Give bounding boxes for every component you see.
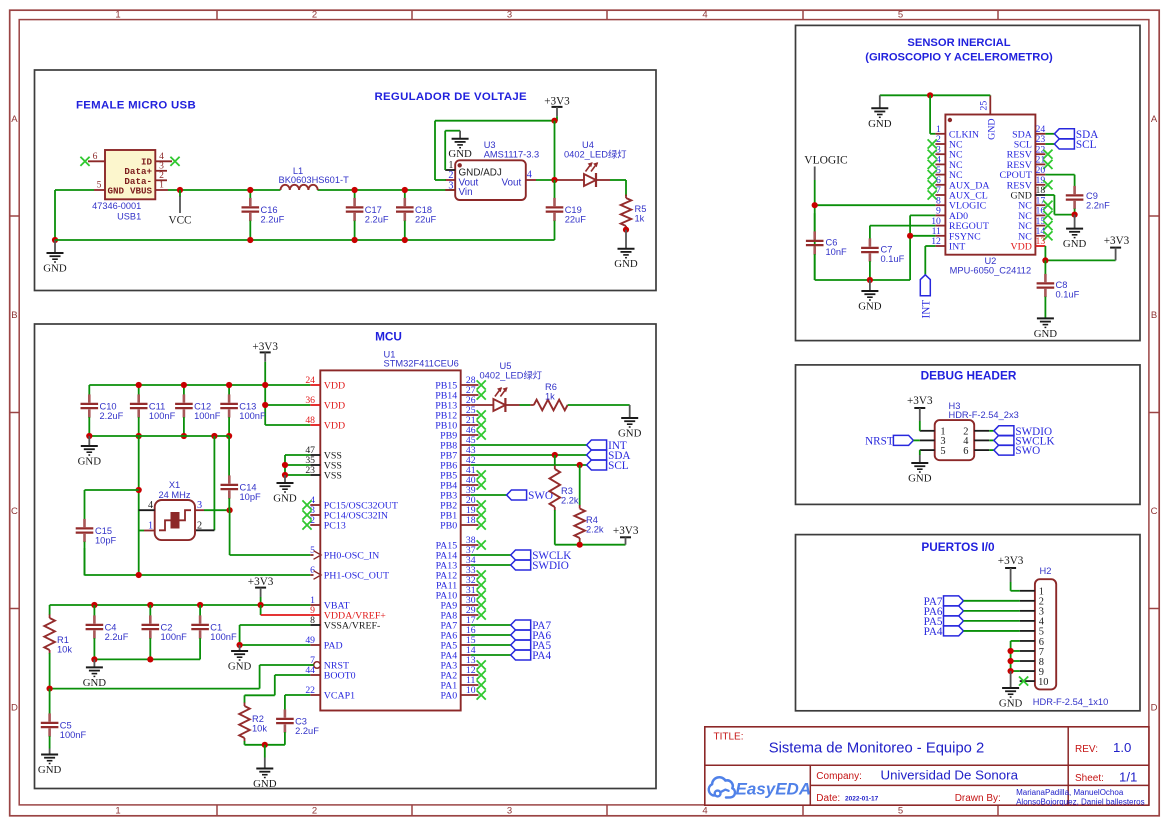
resistor R2 10k bbox=[239, 702, 267, 745]
U1 pin 6 PH1-OSC_OUT clock arrow bbox=[310, 565, 389, 581]
svg-text:VDD: VDD bbox=[1010, 242, 1031, 253]
svg-text:+3V3: +3V3 bbox=[544, 95, 570, 107]
svg-text:1: 1 bbox=[448, 160, 453, 171]
capacitor C7 bbox=[861, 237, 904, 280]
net flag SDA sensor bbox=[1045, 129, 1098, 141]
power flag +3V3 sensor bbox=[1104, 235, 1130, 261]
svg-text:AlonsoBojorquez, Daniel balles: AlonsoBojorquez, Daniel ballesteros bbox=[1016, 797, 1145, 806]
svg-text:GND: GND bbox=[858, 301, 882, 313]
svg-text:SCL: SCL bbox=[1076, 139, 1097, 151]
svg-text:A: A bbox=[1151, 114, 1158, 125]
svg-text:10pF: 10pF bbox=[240, 492, 262, 502]
svg-text:10nF: 10nF bbox=[826, 247, 848, 257]
svg-text:D: D bbox=[1151, 703, 1158, 714]
svg-text:GND: GND bbox=[1034, 328, 1058, 340]
wire VDD pin13 to +3V3 and C8 bbox=[1045, 246, 1115, 260]
connector USB1 47346-0001 body bbox=[105, 150, 155, 199]
U1 pin 7 NRST with bubble bbox=[310, 655, 349, 671]
wire CPOUT to C9 bbox=[1045, 175, 1074, 186]
wire VBUS rail bbox=[168, 189, 456, 191]
U2 pin 18 GND bbox=[1010, 185, 1045, 201]
junction Vout node bbox=[551, 177, 557, 183]
svg-text:C: C bbox=[1151, 506, 1158, 517]
ground symbol right of R6 bbox=[618, 405, 642, 440]
junction VDD C8 tap bbox=[1042, 257, 1048, 263]
section title PUERTOS I/0 bbox=[921, 540, 995, 554]
net flag INT on PB8 bbox=[471, 440, 627, 452]
svg-text:GND: GND bbox=[273, 493, 297, 505]
svg-text:B: B bbox=[1151, 310, 1157, 321]
capacitor C11 bbox=[130, 382, 176, 439]
svg-text:4: 4 bbox=[702, 805, 707, 816]
U1 pin 30 PA9 no-connect bbox=[441, 595, 486, 611]
junction PAD gnd bbox=[237, 642, 243, 648]
svg-text:2: 2 bbox=[197, 520, 202, 531]
U1 pin 34 PA13 bbox=[436, 555, 476, 571]
U1 pin 47 VSS bbox=[305, 445, 342, 461]
net flag SWO on PB3 bbox=[471, 490, 553, 502]
crystal X1 24MHz body bbox=[148, 480, 202, 540]
power flag +3V3 pullups bbox=[613, 525, 639, 545]
svg-text:SWO: SWO bbox=[1015, 445, 1040, 457]
EasyEDA logo bbox=[709, 777, 811, 798]
svg-text:3: 3 bbox=[197, 500, 202, 511]
X1 pin 1 stub bbox=[139, 530, 155, 532]
svg-text:(GIROSCOPIO Y ACELEROMETRO): (GIROSCOPIO Y ACELEROMETRO) bbox=[865, 51, 1053, 63]
svg-text:10: 10 bbox=[1038, 677, 1048, 688]
capacitor C13 bbox=[220, 382, 266, 439]
capacitor C18 bbox=[396, 187, 437, 243]
svg-text:6: 6 bbox=[93, 151, 98, 162]
wire sensor bottom gnd rail bbox=[815, 279, 910, 281]
svg-text:8: 8 bbox=[310, 615, 315, 626]
net flag PA7 puertos bbox=[924, 596, 1020, 608]
power flag +3V3 puertos bbox=[998, 555, 1024, 591]
resistor R1 10k bbox=[44, 605, 72, 689]
title label TITLE: bbox=[714, 731, 744, 742]
svg-text:2: 2 bbox=[312, 805, 317, 816]
svg-text:Vin: Vin bbox=[459, 187, 473, 198]
svg-text:2022-01-17: 2022-01-17 bbox=[845, 795, 879, 802]
svg-text:10k: 10k bbox=[57, 644, 72, 654]
wire AD0 FSYNC tie bbox=[910, 215, 935, 280]
U1 pin 10 PA0 no-connect bbox=[441, 685, 486, 701]
svg-text:AMS1117-3.3: AMS1117-3.3 bbox=[484, 150, 539, 160]
svg-text:PAD: PAD bbox=[324, 641, 343, 652]
svg-text:U2: U2 bbox=[984, 256, 996, 266]
U2 pin 19 RESV no-connect bbox=[1007, 175, 1053, 191]
net flag PA5 puertos bbox=[924, 616, 1020, 628]
svg-text:VCAP1: VCAP1 bbox=[324, 691, 355, 702]
svg-text:+3V3: +3V3 bbox=[907, 395, 933, 407]
wire LED U4 cathode to R5 bbox=[596, 180, 626, 196]
svg-text:EasyEDA: EasyEDA bbox=[736, 780, 812, 799]
ground symbol below C5 bbox=[38, 749, 62, 777]
U1 labels U1 / STM32F411CEU6 bbox=[384, 349, 459, 368]
power flag VCC bbox=[168, 190, 191, 227]
ground symbol lower-left bbox=[43, 240, 67, 275]
svg-text:GND: GND bbox=[987, 119, 998, 140]
U1 pin 20 PB2 no-connect bbox=[440, 495, 486, 511]
U2 pin 21 RESV no-connect bbox=[1007, 155, 1053, 171]
svg-text:X1: X1 bbox=[169, 480, 180, 490]
net flag NRST debug bbox=[865, 435, 920, 447]
svg-text:DEBUG HEADER: DEBUG HEADER bbox=[921, 368, 1017, 382]
wire VSSA/VREF- to PAD gnd bbox=[240, 625, 311, 645]
svg-text:2.2uF: 2.2uF bbox=[100, 411, 124, 421]
junction GND rail at X1 shield column bbox=[211, 433, 217, 439]
wire INT pin to flag bbox=[925, 246, 935, 275]
svg-text:INT: INT bbox=[949, 242, 965, 253]
U2 pin 23 SCL bbox=[1014, 134, 1046, 150]
svg-text:GND: GND bbox=[253, 778, 277, 790]
svg-text:SENSOR INERCIAL: SENSOR INERCIAL bbox=[907, 37, 1010, 49]
svg-text:2.2uF: 2.2uF bbox=[261, 214, 285, 224]
header H2 HDR-F-2.54_1x10 body bbox=[1035, 579, 1056, 689]
svg-text:+3V3: +3V3 bbox=[1104, 235, 1130, 247]
ground symbol below C4 bbox=[83, 659, 107, 689]
svg-text:VBUS: VBUS bbox=[130, 185, 153, 196]
svg-text:1/1: 1/1 bbox=[1119, 770, 1137, 785]
U2 pin 1 CLKIN bbox=[935, 124, 979, 140]
junction VCC tap bbox=[177, 187, 183, 193]
U1 pin 41 PB5 no-connect bbox=[440, 465, 486, 481]
U2 pin 11 FSYNC bbox=[932, 226, 982, 242]
wire C14 down to PH0-OSC_IN bbox=[230, 510, 311, 555]
capacitor C14 bbox=[221, 436, 262, 510]
capacitor C9 bbox=[1066, 186, 1110, 215]
svg-text:USB1: USB1 bbox=[117, 211, 141, 221]
U3 pin 4 stub bbox=[526, 170, 536, 181]
svg-text:PA0: PA0 bbox=[441, 691, 458, 702]
U1 pin 5 PH0-OSC_IN clock arrow bbox=[310, 545, 379, 561]
U2 pin 22 RESV no-connect bbox=[1007, 144, 1053, 160]
svg-text:GND: GND bbox=[614, 258, 638, 270]
junction R1 bottom bbox=[47, 686, 53, 692]
U1 pin 32 PA11 no-connect bbox=[436, 575, 486, 591]
net flag PA5 on pin 15 bbox=[471, 640, 552, 652]
net flag PA7 on pin 17 bbox=[471, 620, 552, 632]
U1 pin 39 PB3 bbox=[440, 485, 476, 501]
svg-text:100nF: 100nF bbox=[210, 632, 237, 642]
USB1 pin 1 stub VBUS bbox=[155, 179, 168, 190]
svg-text:4: 4 bbox=[148, 500, 153, 511]
U1 pin 43 PB7 bbox=[440, 445, 476, 461]
U2 pin 3 NC no-connect bbox=[928, 144, 963, 160]
U1 pin 22 VCAP1 bbox=[305, 685, 355, 701]
svg-text:5: 5 bbox=[97, 179, 102, 190]
svg-text:100nF: 100nF bbox=[239, 411, 266, 421]
wire VCAP1 to C3 bbox=[285, 695, 310, 703]
U1 pin 29 PA8 no-connect bbox=[441, 605, 486, 621]
svg-text:SWDIO: SWDIO bbox=[532, 560, 569, 572]
junction X1 pin3 C14 bbox=[227, 507, 233, 513]
svg-text:10pF: 10pF bbox=[95, 535, 117, 545]
svg-text:C: C bbox=[11, 506, 18, 517]
svg-text:0402_LED绿灯: 0402_LED绿灯 bbox=[480, 369, 543, 380]
U1 pin 3 PC14 with no-connect X bbox=[302, 505, 388, 521]
svg-text:PA4: PA4 bbox=[532, 650, 551, 662]
junction R2/C3 gnd bbox=[262, 742, 268, 748]
U1 pin 24 VDD bbox=[305, 375, 345, 391]
svg-text:BK0603HS601-T: BK0603HS601-T bbox=[279, 175, 350, 185]
net flag SWCLK on PA14 bbox=[471, 550, 572, 562]
USB1 pin 5 stub bbox=[94, 179, 105, 190]
title block outline bbox=[705, 727, 1149, 805]
wire R6 to GND bbox=[568, 404, 630, 406]
wire GND pin18 to C9 bottom bbox=[1045, 195, 1074, 215]
ground symbol puertos bbox=[999, 671, 1023, 710]
junction R5 bottom bbox=[623, 227, 629, 233]
capacitor C17 bbox=[346, 187, 389, 243]
junction SCL R4 tap bbox=[577, 462, 583, 468]
U1 pin 37 PA14 bbox=[436, 545, 476, 561]
net flag PA6 on pin 16 bbox=[471, 630, 552, 642]
U2 pin 5 NC no-connect bbox=[928, 165, 963, 181]
U1 pin 48 VDD bbox=[305, 415, 345, 431]
wire U5 cathode to R6 bbox=[505, 404, 530, 406]
wire BOOT0 to R2 bbox=[245, 675, 311, 702]
net flag SCL on PB6 bbox=[471, 460, 629, 472]
U1 pin 18 PB0 no-connect bbox=[440, 515, 486, 531]
junction R4 bottom bbox=[577, 542, 583, 548]
wire VLOGIC to pin 8 bbox=[815, 204, 936, 206]
svg-text:Universidad De Sonora: Universidad De Sonora bbox=[881, 768, 1019, 783]
junction SDA R3 tap bbox=[552, 452, 558, 458]
junction VDD rail at +3V3 bbox=[262, 382, 268, 408]
U2 pin 12 INT bbox=[931, 236, 965, 252]
ground symbol below C8 bbox=[1034, 318, 1058, 340]
junction GND rail left bbox=[86, 433, 92, 439]
U3 labels U3 / AMS1117-3.3 bbox=[484, 140, 539, 159]
section box MCU bbox=[35, 324, 657, 789]
svg-text:PH1-OSC_OUT: PH1-OSC_OUT bbox=[324, 571, 389, 582]
svg-text:GND: GND bbox=[43, 263, 67, 275]
U2 pin 2 NC no-connect bbox=[928, 134, 963, 150]
H2 pin 10 no-connect X bbox=[1019, 676, 1028, 685]
capacitor C4 bbox=[86, 605, 129, 659]
junction VBAT taps bbox=[91, 602, 263, 608]
section box DEBUG HEADER bbox=[796, 365, 1141, 505]
section box PUERTOS I/0 bbox=[796, 535, 1141, 711]
junction GND rail left bbox=[52, 237, 58, 243]
svg-text:B: B bbox=[11, 310, 17, 321]
svg-text:3: 3 bbox=[448, 180, 453, 191]
svg-text:GND: GND bbox=[83, 677, 107, 689]
ground symbol below C9 bbox=[1063, 215, 1087, 251]
USB1 pin 3 stub bbox=[155, 160, 167, 171]
net flag SWO debug bbox=[989, 445, 1040, 457]
U1 pin 23 VSS bbox=[305, 465, 342, 481]
H2 pin stubs bbox=[1020, 591, 1035, 681]
net flag SWCLK debug bbox=[989, 435, 1054, 447]
svg-text:VSS: VSS bbox=[324, 471, 342, 482]
svg-text:2.2uF: 2.2uF bbox=[365, 214, 389, 224]
U2 pin 14 NC no-connect bbox=[1018, 226, 1052, 242]
svg-text:Drawn By:: Drawn By: bbox=[955, 793, 1001, 804]
wire C15 top link bbox=[85, 489, 139, 491]
frame row letters bbox=[11, 114, 1158, 714]
ground symbol debug pin5 bbox=[908, 450, 932, 484]
svg-text:2.2uF: 2.2uF bbox=[295, 726, 319, 736]
net flag SCL sensor bbox=[1045, 139, 1096, 151]
U1 pin 25 PB12 no-connect bbox=[435, 405, 486, 421]
svg-text:1: 1 bbox=[159, 179, 164, 190]
svg-text:Sheet:: Sheet: bbox=[1075, 773, 1104, 784]
wire U2 gnd top to ground bbox=[880, 94, 991, 96]
H2 label H2 bbox=[1040, 566, 1052, 576]
title label REV: 1.0 bbox=[1075, 740, 1131, 755]
svg-text:TITLE:: TITLE: bbox=[714, 731, 744, 742]
svg-text:1.0: 1.0 bbox=[1113, 740, 1131, 755]
U2 pin 9 AD0 bbox=[935, 206, 968, 222]
wire VDDA red branch bbox=[261, 605, 311, 615]
wire R2 C3 bottoms join bbox=[245, 744, 285, 746]
wire U3 Vout to LED U4 bbox=[536, 179, 584, 181]
svg-text:GND: GND bbox=[1063, 238, 1087, 250]
svg-text:VDD: VDD bbox=[324, 421, 345, 432]
capacitor C19 bbox=[546, 180, 587, 240]
svg-text:2.2k: 2.2k bbox=[561, 495, 579, 505]
power flag VLOGIC bbox=[804, 154, 848, 180]
capacitor C2 bbox=[142, 605, 188, 659]
U2 pin 4 NC no-connect bbox=[928, 155, 963, 171]
frame column ticks bbox=[217, 10, 998, 816]
svg-text:+3V3: +3V3 bbox=[252, 341, 278, 353]
svg-text:NRST: NRST bbox=[865, 435, 894, 447]
U3 pin 3 stub bbox=[445, 180, 455, 191]
inductor L1 bbox=[279, 166, 350, 190]
header H3 HDR-F-2.54_2x3 body bbox=[935, 420, 975, 460]
junction C15 top tap bbox=[136, 487, 142, 493]
capacitor C1 bbox=[191, 605, 237, 659]
U1 pin 26 PB13 bbox=[435, 395, 475, 411]
MCU U1 STM32F411CEU6 body bbox=[320, 370, 460, 710]
ground symbol below PAD wire bbox=[228, 645, 252, 673]
power flag +3V3 regulator output bbox=[544, 95, 570, 120]
U2 pin 25 GND top bbox=[979, 95, 998, 140]
svg-text:GND: GND bbox=[448, 148, 472, 160]
U1 pin 36 VDD bbox=[305, 395, 345, 411]
svg-text:100nF: 100nF bbox=[194, 411, 221, 421]
section title REGULADOR DE VOLTAJE bbox=[375, 91, 527, 103]
svg-text:22uF: 22uF bbox=[415, 214, 437, 224]
section title MCU bbox=[375, 330, 402, 344]
svg-text:BOOT0: BOOT0 bbox=[324, 671, 356, 682]
svg-text:3: 3 bbox=[507, 10, 512, 21]
svg-text:10k: 10k bbox=[252, 723, 267, 733]
U2 pin 7 AUX_CL no-connect bbox=[928, 185, 988, 201]
svg-text:1: 1 bbox=[115, 10, 120, 21]
U1 pin 33 PA12 no-connect bbox=[436, 565, 486, 581]
U1 pin 13 PA3 no-connect bbox=[441, 655, 486, 671]
USB1 pin 6 stub with no-connect X bbox=[80, 151, 105, 166]
svg-text:PA4: PA4 bbox=[924, 626, 943, 638]
svg-text:PUERTOS I/0: PUERTOS I/0 bbox=[921, 540, 995, 554]
wire GND rail under C10-C13 bbox=[89, 435, 229, 437]
svg-text:Sistema de Monitoreo - Equipo: Sistema de Monitoreo - Equipo 2 bbox=[769, 740, 985, 756]
svg-text:+3V3: +3V3 bbox=[248, 576, 274, 588]
net flag SWDIO debug bbox=[989, 426, 1052, 438]
svg-text:2.2nF: 2.2nF bbox=[1086, 200, 1110, 210]
U1 pin 28 PB15 no-connect bbox=[435, 375, 486, 391]
net flag PA6 puertos bbox=[924, 606, 1020, 618]
net flag SDA on PB7 bbox=[471, 450, 631, 462]
svg-text:+3V3: +3V3 bbox=[998, 555, 1024, 567]
ground symbol below VSS bbox=[273, 475, 297, 505]
U1 pin 35 VSS bbox=[305, 455, 342, 471]
title label Drawn By bbox=[955, 793, 1001, 804]
svg-text:GND: GND bbox=[228, 661, 252, 673]
wire bottom ground rail bbox=[55, 239, 555, 241]
junction AD0/FSYNC bbox=[907, 233, 913, 239]
U1 pin 49 PAD bbox=[305, 635, 342, 651]
wire REGOUT to C7 bbox=[870, 226, 936, 237]
svg-text:24 MHz: 24 MHz bbox=[158, 490, 190, 500]
svg-text:MCU: MCU bbox=[375, 330, 402, 344]
resistor R6 1k bbox=[530, 382, 567, 410]
svg-text:GND: GND bbox=[108, 185, 125, 196]
svg-text:1k: 1k bbox=[635, 213, 645, 223]
LED U5 0402_LED on PB13 bbox=[471, 361, 542, 412]
svg-text:10: 10 bbox=[466, 685, 476, 696]
svg-text:PB0: PB0 bbox=[440, 521, 457, 532]
U1 pin 45 PB8 bbox=[440, 435, 476, 451]
resistor R3 2.2k bbox=[550, 455, 579, 545]
svg-text:GND: GND bbox=[908, 473, 932, 485]
junction H2 gnd pins bbox=[1008, 648, 1014, 674]
capacitor C8 bbox=[1037, 260, 1080, 318]
svg-text:HDR-F-2.54_1x10: HDR-F-2.54_1x10 bbox=[1033, 697, 1108, 707]
U1 pin 2 PC13 with no-connect X bbox=[302, 515, 345, 531]
capacitor C6 bbox=[806, 213, 847, 280]
wire VLOGIC column bbox=[814, 180, 816, 280]
ground symbol sensor bottom bbox=[858, 280, 882, 313]
wire U3 pin2 feedback loop to +3V3 node bbox=[435, 121, 555, 180]
svg-text:STM32F411CEU6: STM32F411CEU6 bbox=[384, 359, 459, 369]
U3 pin 2 stub bbox=[445, 170, 455, 181]
net flag INT sensor bbox=[920, 275, 932, 319]
title label Date bbox=[816, 793, 878, 804]
junction VLOGIC bbox=[812, 202, 818, 208]
svg-text:0402_LED绿灯: 0402_LED绿灯 bbox=[564, 149, 627, 160]
svg-text:D: D bbox=[11, 703, 18, 714]
U1 pin 42 PB6 bbox=[440, 455, 476, 471]
wire CLKIN to gnd net bbox=[930, 95, 935, 134]
section title FEMALE MICRO USB bbox=[76, 100, 196, 112]
U3 pin 1 stub bbox=[445, 160, 455, 171]
section title DEBUG HEADER bbox=[921, 368, 1017, 382]
junction PH1 at crystal column bbox=[136, 572, 142, 578]
wire U3 pin1 loop to GND bbox=[445, 131, 460, 170]
H3 pin stubs right bbox=[974, 431, 989, 450]
ground symbol below C10 bbox=[78, 436, 102, 468]
svg-text:FEMALE MICRO USB: FEMALE MICRO USB bbox=[76, 100, 196, 112]
svg-text:Company:: Company: bbox=[816, 771, 862, 782]
U1 pin 11 PA1 no-connect bbox=[441, 675, 486, 691]
title label Company bbox=[816, 768, 1018, 783]
U1 pin 21 PB10 no-connect bbox=[435, 415, 486, 431]
regulator U3 AMS1117-3.3 body bbox=[455, 160, 526, 200]
wire R3 R4 bottoms to +3V3 bbox=[555, 544, 626, 546]
svg-text:A: A bbox=[11, 114, 18, 125]
net flag SWDIO on PA13 bbox=[471, 560, 569, 572]
U1 pin 40 PB4 no-connect bbox=[440, 475, 486, 491]
resistor R4 2.2k bbox=[574, 465, 604, 545]
X1 pin 3 stub bbox=[195, 509, 204, 511]
frame row ticks bbox=[10, 216, 1160, 609]
wire +3V3 column down to Vout node bbox=[554, 121, 556, 180]
